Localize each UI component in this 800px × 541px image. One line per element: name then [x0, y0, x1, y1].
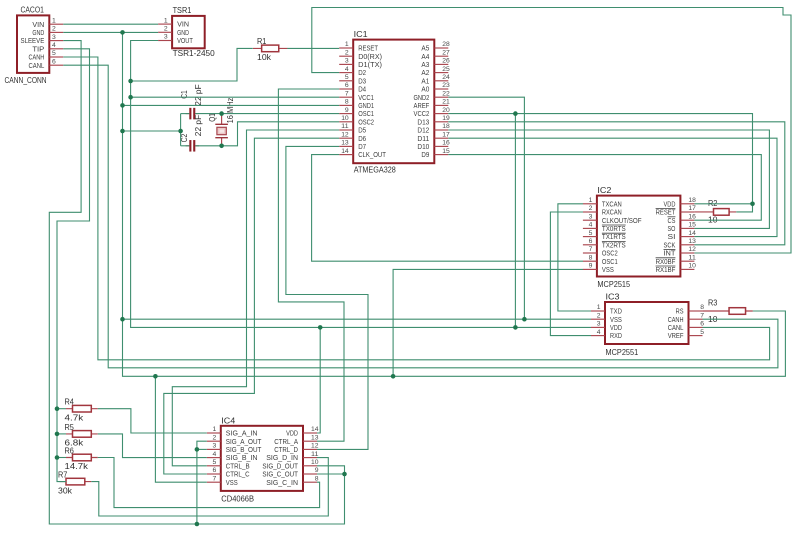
wire ladder to R6 [57, 457, 66, 459]
wire R7 to IC4 SIG_D_IN pin11 [91, 458, 328, 516]
wire D12 IC1 pin18 to IC2 SO [448, 130, 769, 228]
junction IC2 VSS on GND bus [391, 374, 396, 379]
junction crystal bottom node [219, 144, 224, 149]
svg-text:8: 8 [345, 99, 349, 106]
svg-text:Q1: Q1 [208, 113, 217, 122]
svg-text:2: 2 [52, 26, 56, 33]
svg-text:1: 1 [589, 197, 593, 204]
svg-text:1: 1 [52, 17, 56, 24]
svg-text:ATMEGA328: ATMEGA328 [354, 165, 396, 175]
svg-text:6: 6 [589, 238, 593, 245]
svg-text:13: 13 [688, 238, 696, 245]
svg-text:12: 12 [311, 443, 319, 450]
wire C1 C2 common plate to ground [181, 113, 190, 115]
wire GND2 IC1 pin22 down to VSS row [448, 97, 524, 319]
junction GND row at rail [120, 30, 125, 35]
IC1 pin 4 D2 stub [339, 72, 353, 74]
wire IC4 SIG_C_OUT pin9 branch [317, 473, 345, 475]
resistor R1 body [262, 45, 279, 52]
IC4 pin 10 SIG_D_OUT stub [303, 465, 317, 467]
svg-text:5: 5 [213, 459, 217, 466]
svg-text:6: 6 [700, 321, 704, 328]
svg-text:D9: D9 [421, 150, 429, 159]
IC4 pin 1 SIG_A_IN stub [207, 432, 221, 434]
svg-text:27: 27 [442, 49, 450, 56]
svg-text:12: 12 [341, 131, 349, 138]
svg-text:16: 16 [688, 213, 696, 220]
wire D4 IC1 pin6 to IC4 CTRL_A [278, 89, 344, 441]
IC2 pin 8 OSC1 stub [583, 260, 597, 262]
IC1 pin 28 A5 stub [434, 47, 448, 49]
svg-text:R7: R7 [58, 470, 68, 480]
IC4 CD4066B box [221, 426, 303, 491]
svg-text:5: 5 [700, 329, 704, 336]
IC3 pin 1 TXD stub [591, 310, 605, 312]
TSR1 pin 2 GND stub [158, 31, 172, 33]
svg-text:1: 1 [164, 17, 168, 24]
wire IC4 SIG_A_OUT pin2 branch to bus [197, 441, 207, 524]
svg-text:SIG_C_IN: SIG_C_IN [266, 478, 298, 487]
wire D9 IC1 pin15 to IC2 CS [448, 155, 761, 221]
junction VCC2 branch [513, 111, 518, 116]
resistor R3 body [729, 308, 746, 315]
svg-text:17: 17 [442, 131, 450, 138]
svg-text:VSS: VSS [226, 478, 238, 487]
svg-text:R6: R6 [65, 445, 75, 455]
IC1 pin 24 A1 stub [434, 80, 448, 82]
resistor R4 body [73, 405, 92, 412]
IC2 pin 10 RX1BF stub [680, 268, 694, 270]
svg-text:23: 23 [442, 82, 450, 89]
wire D11 IC1 pin17 to IC2 SI [448, 138, 777, 236]
svg-text:17: 17 [688, 205, 696, 212]
IC1 pin 26 A3 stub [434, 63, 448, 65]
wire IC2 VSS pin9 to GND bus [393, 269, 583, 376]
svg-text:CD4066B: CD4066B [221, 494, 254, 504]
wire IC4 VSS pin7 to GND bus [155, 376, 206, 482]
svg-text:TSR1-2450: TSR1-2450 [173, 48, 215, 58]
IC3 pin 5 VREF stub [689, 335, 703, 337]
CACO1 pin 2 GND stub [49, 31, 63, 33]
resistor R7 leads [60, 481, 92, 483]
svg-text:22 pF: 22 pF [194, 115, 203, 137]
IC2 pin 6 TX2RTS stub [583, 244, 597, 246]
svg-text:1: 1 [345, 41, 349, 48]
wire CLK_OUT IC1 pin14 to IC2 OSC1 [312, 155, 583, 262]
svg-text:13: 13 [311, 434, 319, 441]
svg-text:R5: R5 [65, 422, 75, 432]
IC2 pin 7 OSC2 stub [583, 252, 597, 254]
IC4 pin 13 CTRL_A stub [303, 440, 317, 442]
svg-text:7: 7 [345, 90, 349, 97]
IC1 pin 12 D6 stub [339, 137, 353, 139]
IC2 pin 13 SCK stub [680, 244, 694, 246]
IC1 pin 3 D1(TX) stub [339, 63, 353, 65]
svg-text:20: 20 [442, 107, 450, 114]
junction outputs bus pin2 branch [195, 522, 200, 527]
wire R5 to IC4 SIG_B_IN pin4 [98, 434, 207, 458]
wire VCC2 branch down to VDD row [514, 114, 516, 328]
IC1 pin 10 OSC2 stub [339, 121, 353, 123]
svg-text:9: 9 [589, 263, 593, 270]
crystal Q1 electrode plates [215, 124, 228, 137]
svg-text:14: 14 [311, 426, 319, 433]
junction VCC2 on VDD row [513, 325, 518, 330]
svg-text:1: 1 [213, 426, 217, 433]
junction VCC at R1 pullup [128, 79, 133, 84]
IC1 pin 27 A4 stub [434, 55, 448, 57]
svg-text:2: 2 [589, 205, 593, 212]
junction GND2 on VSS row [522, 317, 527, 322]
capacitor C1 plates [189, 108, 191, 120]
IC3 MCP2551 box [605, 302, 689, 344]
junction SIG_B_OUT pin3 [195, 447, 200, 452]
wire D6 IC1 pin12 to IC4 CTRL_C [164, 138, 339, 474]
junction ladder R5 [55, 432, 60, 437]
svg-text:14: 14 [688, 230, 696, 237]
TSR1 TSR1-2450 box [172, 16, 205, 48]
svg-text:10k: 10k [257, 52, 272, 62]
IC4 pin 2 SIG_A_OUT stub [207, 440, 221, 442]
IC1 pin 6 D4 stub [339, 88, 353, 90]
IC4 pin 6 CTRL_C stub [207, 473, 221, 475]
svg-text:2: 2 [213, 434, 217, 441]
svg-text:14: 14 [341, 148, 349, 155]
IC3 pin 2 VSS stub [591, 318, 605, 320]
IC2 pin 5 TX1RTS stub [583, 236, 597, 238]
svg-text:IC3: IC3 [606, 292, 620, 302]
wire OSC1 IC1 pin9 to crystal and C1 [195, 113, 339, 115]
wire IC4 SIG_B_OUT pin3 branch [197, 448, 207, 450]
wire CANL CACO1 to IC3 CANH bus [63, 65, 778, 368]
svg-text:9: 9 [315, 467, 319, 474]
svg-text:3: 3 [164, 34, 168, 41]
IC1 pin 18 D12 stub [434, 129, 448, 131]
svg-text:26: 26 [442, 58, 450, 65]
IC1 pin 23 A0 stub [434, 88, 448, 90]
junction IC2 VDD tap [750, 202, 755, 207]
svg-text:5: 5 [52, 50, 56, 57]
svg-text:6: 6 [213, 467, 217, 474]
resistor R4 leads [66, 408, 98, 410]
IC2 pin 4 TX0RTS stub [583, 227, 597, 229]
svg-text:2: 2 [597, 312, 601, 319]
resistor R6 leads [66, 457, 98, 459]
svg-text:6: 6 [52, 58, 56, 65]
wire CANH CACO1 to IC3 CANL bus [63, 57, 769, 360]
junction IC4 VDD on VDD row [318, 325, 323, 330]
IC1 pin 2 D0(RX) stub [339, 55, 353, 57]
wire R4 to IC4 SIG_A_IN pin1 [98, 409, 207, 433]
IC2 pin 9 VSS stub [583, 268, 597, 270]
IC2 pin 11 RX0BF stub [680, 260, 694, 262]
IC3 pin 6 CANL stub [689, 326, 703, 328]
junction ladder R6 [55, 455, 60, 460]
IC4 pin 14 VDD stub [303, 432, 317, 434]
wire GND vertical rail + bottom GND bus to R3 [123, 32, 786, 376]
IC3 pin 4 RXD stub [591, 335, 605, 337]
svg-text:4: 4 [52, 42, 56, 49]
CACO1 pin 3 SLEEVE stub [49, 40, 63, 42]
svg-text:TSR1: TSR1 [173, 5, 192, 15]
CACO1 pin 1 VIN stub [49, 23, 63, 25]
wire C2 left lead [181, 145, 190, 147]
resistor R2 leads [694, 211, 736, 213]
svg-text:RXD: RXD [610, 331, 622, 340]
IC2 pin 17 RESET stub [680, 211, 694, 213]
svg-text:4: 4 [345, 66, 349, 73]
svg-text:7: 7 [213, 475, 217, 482]
svg-text:11: 11 [311, 451, 319, 458]
junction VSS row at rail [120, 317, 125, 322]
wire D7 IC1 pin13 to IC4 CTRL_D [286, 146, 368, 449]
svg-text:2: 2 [164, 26, 168, 33]
wire crystal ground branch [123, 130, 181, 132]
IC1 pin 20 VCC2 stub [434, 113, 448, 115]
wire TIP to resistor ladder [57, 49, 90, 482]
wire ladder to R4 [57, 408, 66, 410]
svg-text:19: 19 [442, 115, 450, 122]
svg-text:10: 10 [688, 263, 696, 270]
IC4 pin 4 SIG_B_IN stub [207, 457, 221, 459]
IC4 pin 12 CTRL_D stub [303, 448, 317, 450]
IC2 pin 14 SI stub [680, 236, 694, 238]
svg-text:2: 2 [345, 49, 349, 56]
svg-text:18: 18 [442, 123, 450, 130]
TSR1 pin 3 VOUT stub [158, 40, 172, 42]
svg-text:8: 8 [315, 475, 319, 482]
IC2 pin 1 TXCAN stub [583, 203, 597, 205]
resistor R3 leads [703, 310, 753, 312]
IC2 pin 18 VDD stub [680, 203, 694, 205]
svg-text:CANL: CANL [29, 61, 45, 70]
IC3 pin 7 CANH stub [689, 318, 703, 320]
wire TXCAN IC2 pin1 to IC3 TXD [558, 204, 591, 311]
IC4 pin 11 SIG_D_IN stub [303, 457, 317, 459]
IC4 pin 3 SIG_B_OUT stub [207, 448, 221, 450]
svg-text:R2: R2 [708, 198, 718, 208]
svg-text:14.7k: 14.7k [65, 461, 89, 471]
IC3 pin 3 VDD stub [591, 326, 605, 328]
wire RXCAN IC2 pin2 to IC3 RXD [550, 212, 591, 336]
capacitor C2 plates [189, 140, 191, 152]
wire OSC2 IC1 pin10 to crystal and C2 [195, 122, 339, 146]
svg-text:8: 8 [700, 304, 704, 311]
wire VCC2 IC1 pin20 to IC2 VDD rail [448, 114, 752, 212]
IC1 pin 16 D10 stub [434, 145, 448, 147]
svg-text:25: 25 [442, 66, 450, 73]
svg-text:VREF: VREF [668, 331, 684, 340]
junction ladder R4 [55, 406, 60, 411]
svg-text:13: 13 [341, 140, 349, 147]
junction VCC1 row at rail [128, 95, 133, 100]
svg-text:7: 7 [700, 312, 704, 319]
svg-text:10: 10 [341, 115, 349, 122]
wire R6 to IC4 SIG_C_IN pin8 [98, 458, 320, 508]
svg-text:5: 5 [589, 230, 593, 237]
wire VIN CACO1 to TSR1 [63, 23, 158, 25]
svg-text:IC4: IC4 [221, 416, 235, 426]
wire VCC1 IC1 pin7 [131, 96, 340, 98]
svg-text:8: 8 [589, 254, 593, 261]
junction SIG_C_OUT pin9 [342, 472, 347, 477]
resistor R5 leads [66, 433, 98, 435]
svg-text:CACO1: CACO1 [21, 5, 45, 15]
svg-text:15: 15 [442, 148, 450, 155]
svg-text:16: 16 [442, 140, 450, 147]
junction crystal top node [219, 111, 224, 116]
svg-text:15: 15 [688, 222, 696, 229]
IC1 pin 8 GND1 stub [339, 104, 353, 106]
svg-text:5: 5 [345, 74, 349, 81]
wire IC4 VDD pin14 up to VDD row [317, 327, 320, 433]
resistor R2 body [714, 209, 730, 216]
svg-text:VOUT: VOUT [177, 36, 193, 45]
capacitor C1 leads [186, 113, 199, 115]
CACO1 pin 4 TIP stub [49, 48, 63, 50]
svg-text:22: 22 [442, 90, 450, 97]
IC1 pin 9 OSC1 stub [339, 113, 353, 115]
IC4 pin 5 CTRL_B stub [207, 465, 221, 467]
junction crystal gnd at rail [120, 129, 125, 134]
IC2 pin 2 RXCAN stub [583, 211, 597, 213]
IC1 pin 11 D5 stub [339, 129, 353, 131]
IC1 pin 13 D7 stub [339, 145, 353, 147]
svg-text:R4: R4 [65, 397, 75, 407]
IC1 pin 1 RESET stub [339, 47, 353, 49]
svg-text:4: 4 [213, 451, 217, 458]
IC1 pin 25 A2 stub [434, 72, 448, 74]
IC2 pin 12 INT stub [680, 252, 694, 254]
svg-text:11: 11 [341, 123, 349, 130]
svg-text:7: 7 [589, 246, 593, 253]
svg-text:10: 10 [708, 215, 718, 225]
svg-text:IC2: IC2 [597, 185, 611, 195]
IC1 ATMEGA328 box [353, 40, 434, 164]
IC2 pin 3 CLKOUT/SOF stub [583, 219, 597, 221]
CACO1 pin 5 CANH stub [49, 56, 63, 58]
IC2 pin 16 CS stub [680, 219, 694, 221]
wire D13 IC1 pin19 to IC2 SCK [448, 122, 785, 245]
CACO1 CANN_CONN box [17, 15, 49, 73]
wire R1 to IC1 RESET pin1 [287, 47, 339, 49]
svg-text:1: 1 [597, 304, 601, 311]
svg-text:IC1: IC1 [354, 29, 368, 39]
crystal Q1 body [217, 127, 226, 134]
svg-text:28: 28 [442, 41, 450, 48]
svg-text:3: 3 [597, 321, 601, 328]
wire VCC to R1 pullup [131, 48, 253, 81]
IC1 pin 22 GND2 stub [434, 96, 448, 98]
svg-text:3: 3 [345, 58, 349, 65]
wire D2 IC1 pin4 to IC2 INT via top channel [312, 8, 791, 254]
svg-text:6: 6 [345, 82, 349, 89]
IC2 pin 15 SO stub [680, 227, 694, 229]
crystal Q1 leads [221, 114, 223, 146]
svg-text:16 MHz: 16 MHz [226, 98, 235, 124]
svg-text:CANN_CONN: CANN_CONN [5, 75, 47, 85]
IC1 pin 17 D11 stub [434, 137, 448, 139]
svg-text:R3: R3 [708, 298, 718, 308]
IC1 pin 7 VCC1 stub [339, 96, 353, 98]
wire GND1 IC1 pin8 to GND rail [123, 104, 340, 106]
svg-text:30k: 30k [58, 485, 73, 495]
wire ladder to R5 [57, 433, 66, 435]
svg-text:3: 3 [52, 34, 56, 41]
IC4 pin 9 SIG_C_OUT stub [303, 473, 317, 475]
svg-text:18: 18 [688, 197, 696, 204]
IC3 pin 8 RS stub [689, 310, 703, 312]
IC1 pin 14 CLK_OUT stub [339, 154, 353, 156]
wire VCC TSR1 VOUT down to VDD row to IC3 pin3 [131, 41, 591, 328]
svg-text:9: 9 [345, 107, 349, 114]
svg-text:3: 3 [213, 443, 217, 450]
IC1 pin 21 AREF stub [434, 104, 448, 106]
svg-text:21: 21 [442, 99, 450, 106]
svg-text:VSS: VSS [602, 265, 614, 274]
wire SLEEVE to switch outputs bus [49, 41, 344, 524]
resistor R5 body [73, 431, 92, 438]
junction GND1 row at rail [120, 103, 125, 108]
TSR1 pin 1 VIN stub [158, 23, 172, 25]
IC1 pin 15 D9 stub [434, 154, 448, 156]
junction IC4 VSS tap on GND bus [153, 374, 158, 379]
resistor R1 leads [253, 47, 288, 49]
svg-text:MCP2515: MCP2515 [597, 279, 630, 289]
svg-text:C2: C2 [180, 134, 189, 143]
svg-text:4: 4 [589, 222, 593, 229]
svg-text:MCP2551: MCP2551 [606, 347, 639, 357]
resistor R7 body [66, 478, 85, 485]
IC1 pin 5 D3 stub [339, 80, 353, 82]
wire IC2 VDD pin18 tap [694, 203, 752, 205]
svg-text:22 pF: 22 pF [194, 84, 203, 106]
IC2 MCP2515 box [597, 196, 681, 277]
wire D5 IC1 pin11 to IC4 CTRL_B [172, 130, 339, 466]
CACO1 pin 6 CANL stub [49, 64, 63, 66]
svg-text:12: 12 [688, 246, 696, 253]
svg-text:11: 11 [688, 254, 696, 261]
IC4 pin 7 VSS stub [207, 481, 221, 483]
wire GND CACO1 to TSR1 [63, 31, 158, 33]
wire VSS row GND rail to IC3 pin2 [123, 318, 592, 320]
IC4 pin 8 SIG_C_IN stub [303, 481, 317, 483]
svg-text:R1: R1 [257, 36, 267, 46]
resistor R6 body [73, 454, 92, 461]
svg-text:CLK_OUT: CLK_OUT [358, 150, 386, 159]
svg-text:10: 10 [311, 459, 319, 466]
wire capacitor bracket vertical [180, 114, 182, 146]
capacitor C2 leads [186, 145, 199, 147]
svg-text:4: 4 [597, 329, 601, 336]
junction capacitor bracket gnd [178, 129, 183, 134]
IC1 pin 19 D13 stub [434, 121, 448, 123]
svg-text:3: 3 [589, 213, 593, 220]
svg-text:24: 24 [442, 74, 450, 81]
